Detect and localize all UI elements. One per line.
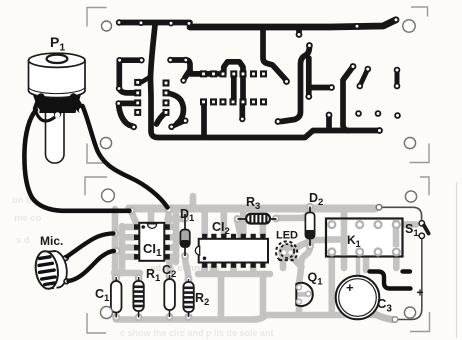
resistor R2 (183, 282, 193, 312)
arch + U (224, 62, 243, 74)
component leads (116, 275, 188, 318)
R3 stubs (238, 220, 241, 235)
C3 top lead (356, 253, 361, 276)
IC CI2 (195, 234, 268, 268)
D1 bottom to R2 top (185, 256, 189, 279)
svg-text:LED: LED (276, 230, 298, 242)
shaft (46, 100, 65, 163)
far right cluster (360, 70, 368, 86)
jumper wire S-bend and + lead dash (370, 272, 411, 289)
transistor Q1 (296, 283, 313, 306)
left cluster (120, 57, 142, 63)
wire from Mic top terminal (67, 233, 114, 256)
small end pads (392, 317, 398, 323)
vertical to bottom trace (201, 104, 207, 135)
flexible hookup wires (24, 106, 167, 281)
LED (276, 241, 297, 260)
lugs (34, 97, 84, 118)
square pads on top PCB (134, 70, 267, 116)
wire from P1 right lug to board (83, 106, 168, 208)
CI2 top pin stubs (201, 211, 208, 235)
bottom run (116, 316, 253, 323)
diag right to bottom (343, 67, 353, 131)
resistor R1 (133, 281, 143, 311)
microphone Mic. (33, 250, 69, 291)
left vertical from top run to C1 (112, 209, 119, 279)
CI1 col2 hook (166, 93, 183, 124)
D2 down (299, 246, 310, 287)
right vertical with branch (306, 58, 312, 94)
svg-text:+: + (346, 280, 354, 295)
top trace (119, 20, 190, 26)
gray copper maze (114, 196, 416, 320)
stub (326, 116, 332, 129)
wire loop under base (36, 112, 55, 121)
wire from P1 left lug to board (24, 110, 129, 211)
svg-text:Mic.: Mic. (40, 234, 63, 248)
C3 bottom shadow (369, 310, 392, 320)
diode D1 (180, 214, 189, 256)
D1 top link (182, 210, 189, 218)
hanging pad stub (296, 27, 302, 32)
svg-text:me co: me co (14, 213, 42, 224)
horizontal link C1/R1 tops (114, 270, 140, 277)
capacitor C3 (336, 276, 380, 320)
capacitor C1 (111, 281, 122, 313)
capacitor C2 (164, 279, 175, 310)
bleed-through text artifacts (12, 195, 274, 338)
CI1 pin4R down to C2 top (166, 258, 173, 276)
thin dark wire line (S1 circuit) (379, 207, 422, 319)
potentiometer P1 (29, 53, 86, 163)
switch S1 (419, 221, 429, 239)
CI2 bottom pin stubs and mid run (198, 271, 270, 278)
K1 through traces (341, 209, 348, 268)
V2 and diagonal (263, 27, 287, 81)
resistor R3 (238, 214, 277, 224)
gray pads (lower board) (111, 203, 314, 321)
round pads on top PCB (115, 16, 400, 133)
svg-text:c show the circ and p ils de: c show the circ and p ils de sole ant (120, 328, 274, 338)
body cylinder (29, 60, 86, 97)
svg-text:+: + (417, 286, 424, 300)
IC CI1 (134, 223, 170, 261)
S-trace (281, 47, 309, 122)
main vertical + bottom trace (151, 25, 379, 138)
LED links (280, 255, 287, 268)
CI1 left pin bus (119, 226, 126, 273)
wire top run (129, 205, 375, 213)
CI1 right pin bus (173, 213, 180, 262)
svg-text:s d: s d (16, 235, 30, 246)
pads pair and junction (170, 60, 218, 74)
Q1 leads (296, 302, 303, 313)
diode D2 (305, 207, 314, 247)
base black (32, 91, 83, 113)
component reference labels (40, 34, 419, 315)
relay K1 (326, 219, 403, 257)
